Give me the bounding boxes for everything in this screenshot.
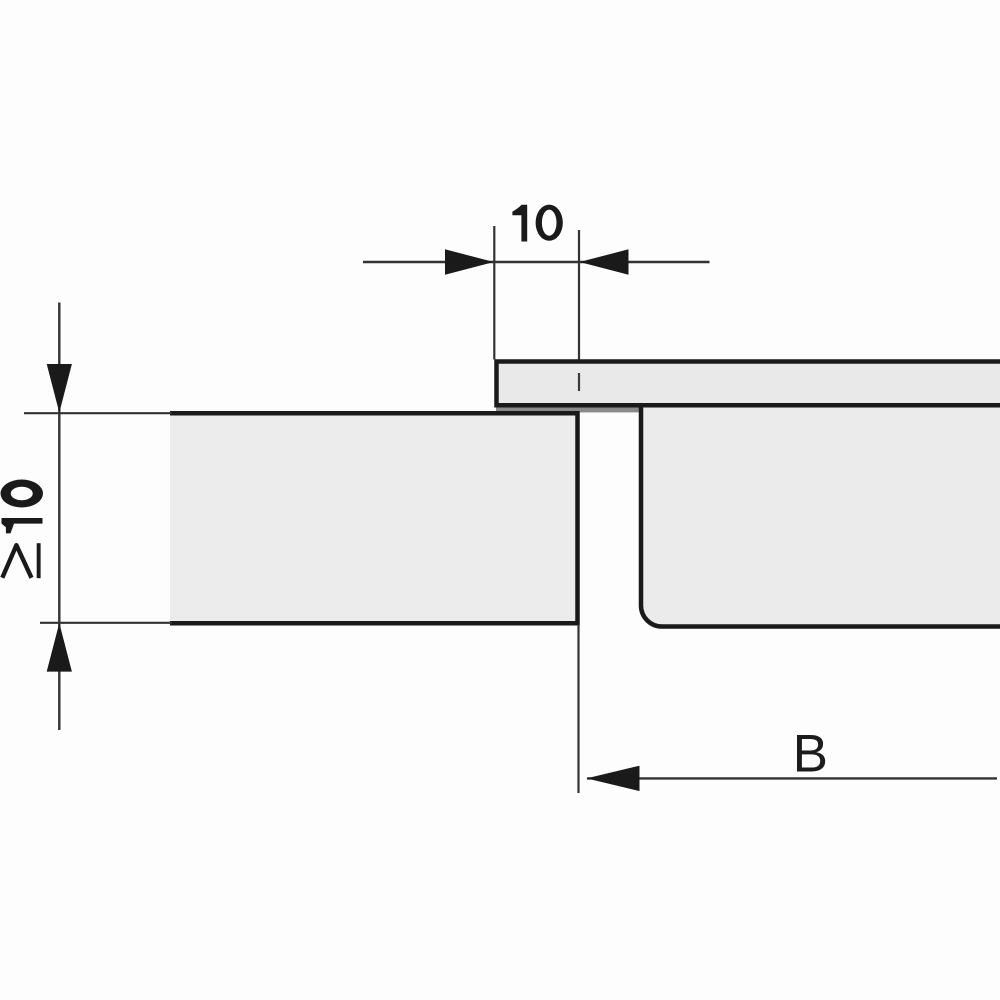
- label 10 digit 1: [512, 205, 527, 242]
- left panel (cross-section, open left end): [170, 413, 578, 623]
- extension line below left panel to B line: [577, 626, 579, 793]
- dimension line B (horizontal, arrow left): [587, 777, 997, 779]
- extension line right of dim 10: [578, 230, 580, 360]
- label &#8805;10 rotated greater-equal sign: [2, 545, 31, 578]
- extension line left of dim 10: [493, 226, 495, 360]
- extension line top of left dimension: [24, 412, 172, 414]
- extension tick inside top panel: [578, 373, 580, 391]
- dimension line 10 (horizontal): [363, 261, 710, 263]
- vertical dimension line for &#8805;10: [58, 303, 60, 731]
- right cabinet side panel (rounded bottom-left corner): [641, 405, 1000, 627]
- shadow strip under top panel: [496, 404, 639, 412]
- arrowhead right-pointing at left extension: [445, 249, 494, 274]
- extension line bottom of left dimension: [40, 622, 172, 624]
- label &#8805;10 rotated digit 0: [1, 480, 44, 508]
- arrowhead up-pointing at bottom of left dimension: [47, 623, 72, 672]
- top panel (worktop cross-section): [497, 362, 1000, 406]
- svg-text:B: B: [793, 725, 828, 784]
- arrowhead left-pointing at right extension: [580, 249, 629, 274]
- arrowhead left-pointing at B extension: [587, 766, 640, 791]
- label 10 digit 0: [536, 205, 563, 241]
- arrowhead down-pointing at top of left dimension: [47, 364, 72, 413]
- label &#8805;10 rotated digit 1: [2, 518, 43, 533]
